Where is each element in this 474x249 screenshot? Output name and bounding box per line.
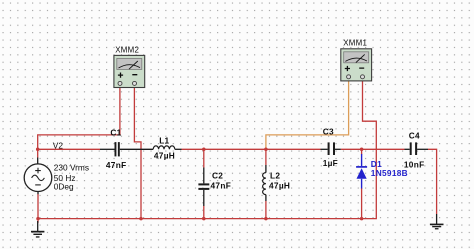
svg-text:47µH: 47µH [269, 181, 290, 191]
svg-text:C2: C2 [212, 170, 223, 180]
svg-text:47nF: 47nF [211, 181, 232, 191]
svg-text:47nF: 47nF [106, 160, 127, 170]
svg-text:XMM1: XMM1 [343, 38, 367, 47]
svg-text:0Deg: 0Deg [54, 181, 74, 191]
svg-text:C4: C4 [409, 130, 420, 140]
svg-text:C3: C3 [323, 127, 334, 137]
svg-text:1µF: 1µF [323, 158, 338, 168]
svg-text:L2: L2 [270, 170, 280, 180]
svg-text:L1: L1 [159, 136, 169, 146]
svg-text:V2: V2 [53, 141, 64, 151]
svg-text:C1: C1 [110, 127, 121, 137]
svg-text:47µH: 47µH [154, 150, 175, 160]
svg-text:230 Vrms: 230 Vrms [54, 163, 89, 173]
svg-text:XMM2: XMM2 [115, 46, 139, 55]
svg-text:1N5918B: 1N5918B [371, 168, 408, 178]
